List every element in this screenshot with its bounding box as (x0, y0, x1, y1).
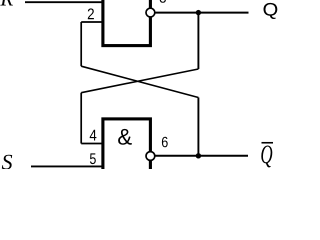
pin label 5 (90, 153, 96, 164)
junction node Q (196, 10, 201, 15)
wire U2 output to Qbar (152, 155, 248, 157)
gate U2 function label & (118, 129, 132, 145)
input label S (2, 155, 12, 170)
pin label 3 (160, 0, 166, 3)
wire feedback down to pin 4 level (80, 93, 82, 144)
wire feedback down to Qbar junction (197, 98, 199, 156)
wire pin 4 input (81, 143, 103, 145)
wire feedback Q down (197, 13, 199, 69)
output label Q (264, 3, 278, 19)
NAND gate U2 (bottom, cropped by image edge) (103, 119, 150, 181)
wire feedback Q diagonal to pin 4 (81, 69, 198, 93)
wire feedback from pin 2 down (80, 22, 82, 66)
wire feedback diagonal to Qbar (81, 66, 198, 97)
inverter bubble U2 output (146, 152, 155, 161)
wire R input (pin 1) (25, 1, 103, 3)
inverter bubble U1 output (146, 8, 155, 17)
pin label 2 (88, 8, 94, 19)
input label R (0, 0, 13, 6)
output label Qbar (261, 146, 272, 168)
wire S input (pin 5) (31, 165, 103, 167)
output label Qbar overbar (262, 142, 274, 144)
wire U1 output to Q (152, 12, 249, 14)
pin label 4 (90, 130, 97, 141)
pin label 6 (162, 137, 168, 148)
wire pin 2 input (81, 21, 103, 23)
NAND gate U1 (top, cropped by image edge) (103, 0, 150, 46)
junction node Qbar (196, 153, 201, 158)
